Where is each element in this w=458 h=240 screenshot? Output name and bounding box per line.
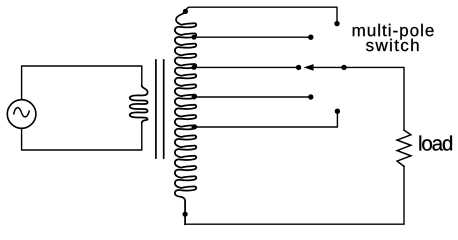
wire tap D to contact 4 [194,96,308,98]
switch SW1 wiper arrow [304,64,314,71]
wire primary loop bottom [22,123,142,151]
node tap E junction [192,125,197,130]
node tap D junction [192,95,197,100]
switch contact 1 [334,21,339,26]
inductor L2 secondary winding [175,12,196,224]
label load [419,136,452,151]
wire tap B to contact 2 [194,36,308,38]
node tap A top junction [183,9,188,14]
transformer core [156,60,164,158]
switch contact 3 [296,65,301,70]
wire wiper to load [313,67,405,130]
switch contact 4 [308,94,313,99]
wire tap E to contact 5 [194,114,337,127]
wire tap A to contact 1 [186,7,337,20]
wire load bottom return [185,166,404,224]
node tap B junction [192,35,197,40]
AC source V1 [7,100,36,129]
wire tap C to contact 3 [194,66,296,68]
resistor R load [397,130,411,166]
node secondary bottom junction [183,212,188,217]
wire primary loop top [22,66,142,100]
node tap C junction [192,65,197,70]
switch contact 2 [308,35,313,40]
switch contact 5 [335,109,340,114]
inductor L1 primary winding [130,86,148,123]
switch SW1 pivot junction [341,65,346,70]
label multi-pole switch [353,24,434,51]
